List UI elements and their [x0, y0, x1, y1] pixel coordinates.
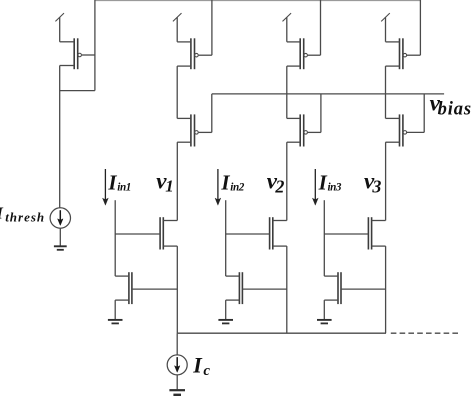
- wire: M0 drain loop horizontal: [60, 90, 95, 92]
- wire: top bias rail connecting mirror gates (cropped at top edge): [95, 0, 421, 1]
- nmos T3b feedback transistor (cell 3): [337, 272, 339, 304]
- wire: node v_2 vertical from cascode drain to T2a drain: [286, 142, 288, 220]
- wire: M2a gate to top bias rail: [211, 0, 213, 55]
- wire: input node I_in2 vertical: [225, 200, 227, 276]
- svg-text:bias: bias: [438, 99, 472, 119]
- svg-text:in1: in1: [117, 182, 131, 194]
- wire: T2a source down to common line: [286, 246, 288, 333]
- nmos T3a output transistor (cell 3): [371, 217, 373, 249]
- wire: T1a source down to common line: [176, 246, 178, 333]
- svg-text:thresh: thresh: [5, 209, 45, 224]
- svg-text:in3: in3: [328, 182, 342, 194]
- wire: T3a source down to common line: [385, 246, 387, 333]
- pmos M3a mirror transistor (column 3): [299, 38, 301, 69]
- input current arrow I_in3: [314, 169, 316, 200]
- pmos M3b cascode transistor (column 3): [299, 114, 301, 146]
- wire: node v_3 vertical from cascode drain to T3a drain: [385, 142, 387, 220]
- wire: M2a drain down to cascode source: [176, 66, 178, 118]
- wire: input node I_in3 vertical: [323, 200, 325, 276]
- wire: M4a drain down to cascode source: [385, 66, 387, 118]
- power VDD symbol (column 3): [286, 17, 288, 42]
- wire: I_thresh to ground: [59, 228, 61, 246]
- wire: common line down to I_c source: [176, 333, 178, 355]
- ground (I_c, clipped at bottom edge): [169, 389, 185, 391]
- nmos T2a output transistor (cell 2): [272, 217, 274, 249]
- wire: input node I_in1 vertical: [114, 200, 116, 276]
- svg-text:I: I: [107, 171, 117, 195]
- nmos T1b feedback transistor (cell 1): [128, 272, 130, 304]
- svg-text:I: I: [220, 171, 230, 195]
- current source I_c: [167, 355, 187, 375]
- svg-text:2: 2: [274, 177, 284, 197]
- wire: M3b gate drop from vbias line: [320, 94, 322, 132]
- ground (cell 2): [218, 319, 233, 321]
- wire: M0 drain down to threshold current source: [59, 66, 61, 208]
- wire: M4b gate drop from vbias line: [423, 94, 425, 132]
- wire: node v_1 vertical from cascode drain to T1a drain: [176, 142, 178, 220]
- wire: M3a gate to top bias rail: [320, 0, 322, 55]
- wire: M4a gate to top bias rail: [419, 0, 421, 55]
- ground (cell 1): [108, 319, 123, 321]
- power VDD symbol (bias column): [59, 17, 61, 42]
- svg-text:1: 1: [165, 177, 174, 196]
- power VDD symbol (column 2): [176, 17, 178, 42]
- pmos M0 diode-connected bias transistor: [73, 38, 75, 69]
- wire: v_bias distribution line: [212, 93, 444, 95]
- svg-text:I: I: [318, 171, 328, 195]
- wire: T1b source to ground (cell 1): [114, 300, 116, 319]
- wire: M0 gate/drain feedback vertical: [94, 0, 96, 91]
- wire: dashed continuation of common line: [391, 332, 461, 334]
- wire: M3a drain down to cascode source: [286, 66, 288, 118]
- nmos T2b feedback transistor (cell 2): [238, 272, 240, 304]
- wire: T2b source to ground (cell 2): [225, 300, 227, 319]
- input current arrow I_in2: [217, 169, 219, 200]
- ground (I_thresh): [54, 245, 67, 247]
- pmos M4a mirror transistor (column 4): [399, 38, 401, 69]
- wire: M2b gate drop from vbias line: [211, 94, 213, 132]
- pmos M2b cascode transistor (column 2): [190, 114, 192, 146]
- wire: I_c to ground: [176, 375, 178, 389]
- current source I_thresh: [50, 208, 70, 228]
- power VDD symbol (column 4): [385, 17, 387, 42]
- input current arrow I_in1: [104, 169, 106, 200]
- pmos M2a mirror transistor (column 2): [190, 38, 192, 69]
- ground (cell 3): [317, 319, 332, 321]
- svg-text:c: c: [203, 363, 210, 379]
- nmos T1a output transistor (cell 1): [162, 217, 164, 249]
- svg-text:in2: in2: [230, 182, 244, 194]
- wire: common source line: [177, 332, 386, 334]
- pmos M4b cascode transistor (column 4): [399, 114, 401, 146]
- svg-text:3: 3: [371, 177, 381, 197]
- wire: T3b source to ground (cell 3): [323, 300, 325, 319]
- svg-text:I: I: [192, 353, 203, 378]
